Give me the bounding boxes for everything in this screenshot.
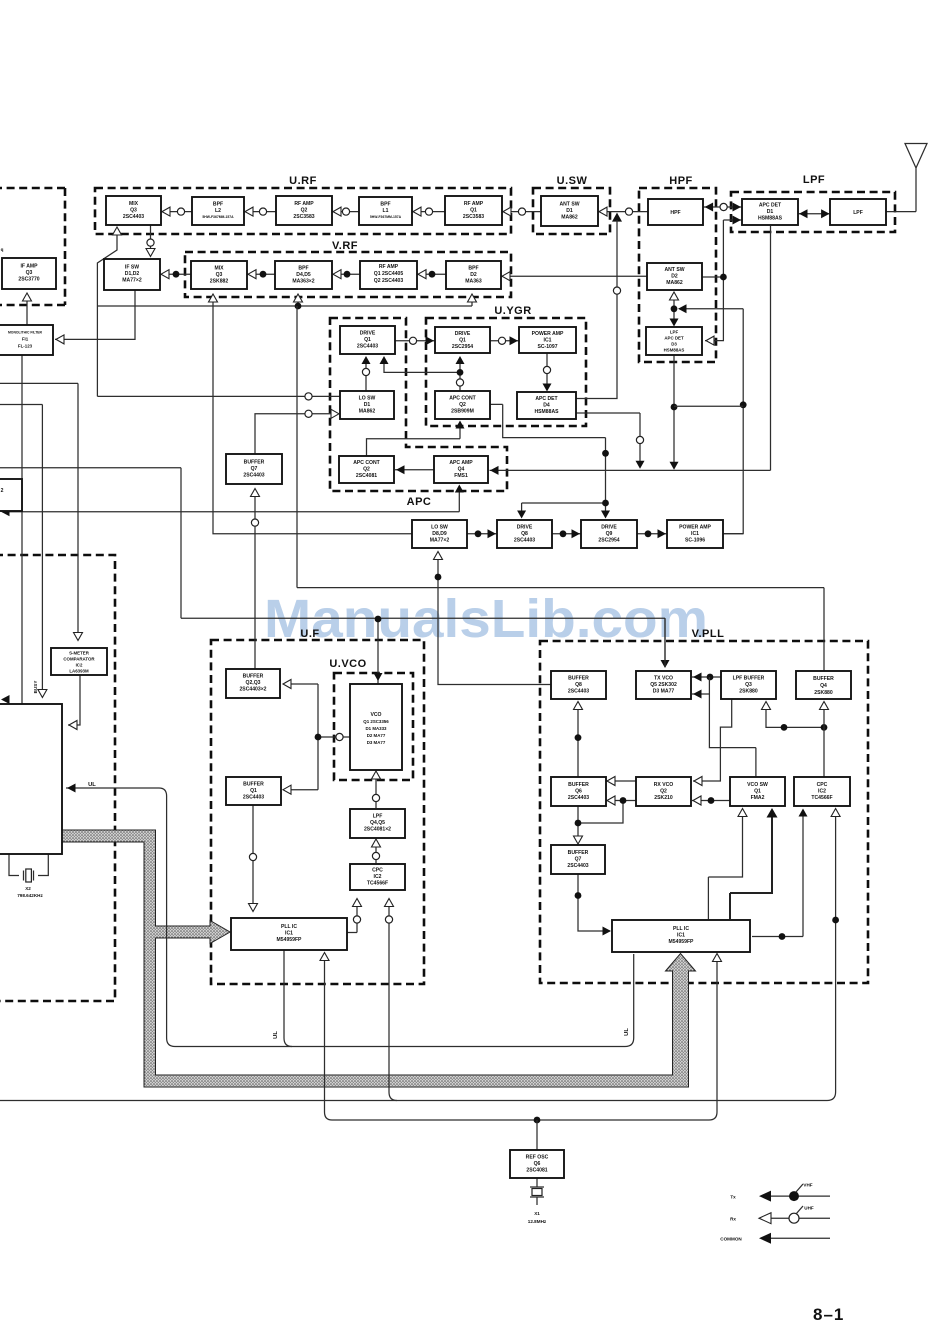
U.YGR section box — [426, 305, 586, 426]
svg-text:BPF: BPF — [213, 202, 223, 208]
svg-text:X2: X2 — [25, 886, 31, 891]
wire REF OSC rail to both PLL ICs — [320, 953, 722, 1124]
svg-text:2SC4403: 2SC4403 — [357, 344, 378, 350]
svg-text:D1 MA333: D1 MA333 — [366, 726, 388, 731]
hatched control bus from CPU box to both PLL ICs — [62, 830, 696, 1087]
wire APC AMP to APC CONT 2SC4081 — [395, 465, 434, 474]
wire LPF BUFFER Q3 bottom arrow rail — [762, 702, 828, 731]
svg-text:LPF: LPF — [853, 210, 863, 216]
svg-text:SC-1096: SC-1096 — [685, 538, 705, 544]
svg-text:Q1 2SC4405: Q1 2SC4405 — [374, 271, 404, 277]
svg-text:IC2: IC2 — [818, 789, 826, 795]
buffer BUFFER Q8 2SC4403 — [551, 671, 606, 699]
filter MONOLITHIC FILTER FI1 FL-123 — [0, 325, 53, 355]
converter CPC IC2 TC4566F V.PLL — [794, 777, 850, 806]
wire IF SW to MIX V.RF — [160, 270, 191, 279]
wire RX VCO to BUFFER Q6 lower — [606, 796, 636, 805]
mixer MIX Q3 2SC4403 — [106, 196, 161, 225]
wire ANT SW D2 right to APC DET D1 column — [702, 220, 727, 345]
svg-text:DRIVE: DRIVE — [601, 525, 617, 531]
switch LO SW D8,D9 MA77x2 — [412, 520, 467, 548]
svg-text:V.PLL: V.PLL — [692, 628, 725, 640]
wire MIX U.RF bottom jog down to line A — [97, 227, 121, 396]
svg-text:APC DET: APC DET — [535, 396, 558, 402]
wire trunk y512 to APC AMP — [1, 485, 464, 517]
filter BPF L2 — [192, 197, 244, 225]
filter BPF D4,D5 MA363x2 — [275, 261, 332, 289]
svg-text:HSM88AS: HSM88AS — [758, 216, 783, 222]
amplifier POWER AMP IC1 SC-1096 — [667, 520, 723, 548]
svg-text:2SK882: 2SK882 — [210, 279, 229, 285]
filter LPF Q4,Q5 2SC4081x2 — [350, 809, 405, 838]
svg-text:Q3: Q3 — [26, 270, 33, 276]
svg-text:D2: D2 — [470, 272, 477, 278]
wire TX VCO top feed — [664, 618, 666, 666]
wire trunk y587 to BUFFER Q4 — [297, 588, 824, 671]
wire MIX U.RF to IF SW — [146, 225, 155, 257]
U.VCO section box — [329, 658, 413, 780]
wire ANT SW D2 to LPF APC DET D3 with junction — [670, 292, 679, 327]
svg-text:BUSY: BUSY — [33, 681, 38, 694]
left lower section box — [0, 555, 115, 1001]
wire CPC U.F lines down to rail — [385, 899, 398, 1101]
svg-text:Q1: Q1 — [754, 789, 761, 795]
svg-text:TC4566F: TC4566F — [367, 881, 388, 887]
svg-text:MA363×2: MA363×2 — [292, 279, 314, 285]
svg-text:D8,D9: D8,D9 — [432, 531, 447, 537]
svg-text:Q6: Q6 — [575, 789, 582, 795]
wire U.RF MIX to BPF L2 — [161, 207, 192, 216]
wire U.F PLL IC to UL bus — [284, 950, 292, 1047]
wire APC CONT 2SB909M output to drivers — [490, 404, 610, 518]
svg-text:UL: UL — [624, 1028, 630, 1036]
svg-text:FMA2: FMA2 — [751, 795, 765, 801]
svg-text:PLL IC: PLL IC — [673, 926, 689, 932]
buffer BUFFER Q7 2SC4403 V.PLL — [551, 845, 605, 874]
wire V.RF bottoms rail — [97, 294, 476, 309]
svg-text:MA862: MA862 — [561, 215, 578, 221]
svg-text:Q8: Q8 — [575, 682, 582, 688]
svg-text:PLL IC: PLL IC — [281, 924, 297, 930]
wire DRIVE Q8 to DRIVE Q9 — [552, 529, 581, 538]
HPF section box — [639, 175, 716, 362]
svg-text:Q2: Q2 — [459, 402, 466, 408]
svg-text:DRIVE: DRIVE — [517, 525, 533, 531]
switch VCO SW Q1 FMA2 — [730, 777, 785, 806]
svg-text:Q9: Q9 — [606, 531, 613, 537]
wire IF AMP down to monolithic filter — [23, 293, 32, 325]
wire BPF L1 to RF AMP Q1 — [412, 207, 445, 216]
svg-text:Q4: Q4 — [820, 683, 827, 689]
svg-text:VHF: VHF — [803, 1183, 812, 1188]
svg-text:M54959FP: M54959FP — [669, 939, 695, 945]
label X1 crystal — [528, 1211, 547, 1224]
wire APC DET D1 to LPF — [798, 209, 830, 218]
oscillator VCO Q1 2SC3356 — [350, 684, 402, 770]
wire VCO SW to RX VCO — [692, 796, 730, 805]
svg-text:U.F: U.F — [300, 628, 319, 640]
amplifier POWER AMP IC1 SC-1097 — [519, 327, 576, 353]
svg-text:MA862: MA862 — [666, 280, 683, 286]
wire BPF D4,D5 column down to trunk — [296, 306, 298, 588]
svg-text:U.SW: U.SW — [557, 175, 588, 187]
svg-text:LPF: LPF — [670, 330, 679, 335]
wire IF SW down to monolithic filter — [55, 290, 135, 344]
svg-text:2SC4081: 2SC4081 — [356, 473, 377, 479]
svg-text:FMS1: FMS1 — [454, 473, 468, 479]
svg-text:2SC4403: 2SC4403 — [567, 863, 588, 869]
svg-text:BUFFER: BUFFER — [243, 674, 264, 680]
svg-text:Q3: Q3 — [216, 272, 223, 278]
svg-text:DRIVE: DRIVE — [455, 331, 471, 337]
wire BPF L2 to RF AMP Q2 — [244, 207, 276, 216]
svg-text:D3: D3 — [671, 342, 677, 347]
svg-text:MA363: MA363 — [465, 279, 482, 285]
svg-text:2SC2954: 2SC2954 — [452, 344, 473, 350]
svg-text:D3 MA77: D3 MA77 — [367, 740, 386, 745]
wire VCO SW control from PLL IC left — [708, 809, 747, 920]
svg-text:HSM88AS: HSM88AS — [534, 409, 559, 415]
svg-text:UHF: UHF — [804, 1206, 814, 1211]
svg-text:2SC3770: 2SC3770 — [18, 277, 39, 283]
svg-text:S-METER: S-METER — [69, 651, 90, 656]
switch ANT SW D2 MA862 — [647, 263, 702, 290]
svg-text:BUFFER: BUFFER — [568, 850, 589, 856]
svg-text:APC DET: APC DET — [759, 203, 782, 209]
wire LPF BUFFER Q3 to TX VCO — [692, 673, 721, 682]
wire VCO SW control bold from PLL IC — [730, 808, 778, 919]
svg-text:Q2: Q2 — [660, 789, 667, 795]
wire trunk to VCOs — [0, 468, 670, 684]
svg-text:D1: D1 — [566, 208, 573, 214]
svg-text:D2 MA77: D2 MA77 — [367, 733, 386, 738]
svg-text:LO SW: LO SW — [359, 396, 376, 402]
wire X1 crystal to REF OSC — [530, 1178, 544, 1205]
wire RX VCO to BUFFER Q6 upper — [606, 777, 636, 786]
svg-text:12.8MHz: 12.8MHz — [528, 1219, 547, 1224]
wire POWER AMP SC-1097 to APC DET D4 — [543, 353, 552, 392]
svg-text:5HW-F367MM-157A: 5HW-F367MM-157A — [202, 215, 234, 219]
svg-text:798.642KHz: 798.642KHz — [17, 893, 43, 898]
svg-text:IC1: IC1 — [677, 933, 685, 939]
svg-text:APC: APC — [407, 496, 432, 508]
svg-text:IF SW: IF SW — [125, 265, 139, 271]
filter LPF — [830, 199, 886, 225]
svg-text:2SC4403: 2SC4403 — [568, 795, 589, 801]
wire BUFFER Q7 upper feed — [251, 489, 260, 670]
svg-text:FL-123: FL-123 — [18, 344, 33, 349]
svg-text:IC1: IC1 — [691, 531, 699, 537]
wire APC CONT 2SC4081 top loop to 2SB909M — [367, 421, 465, 457]
svg-text:Q1: Q1 — [459, 338, 466, 344]
wire BPF D4,D5 to RF AMP — [332, 270, 360, 279]
svg-text:Q1: Q1 — [364, 337, 371, 343]
partial box at left edge — [0, 479, 22, 511]
svg-text:L1: L1 — [383, 208, 389, 214]
amplifier RF AMP Q1 2SC3583 — [445, 196, 502, 225]
oscillator REF OSC Q6 2SC4081 — [510, 1150, 564, 1178]
pll PLL IC IC1 M54959FP — [231, 918, 347, 950]
svg-text:2SC4403: 2SC4403 — [243, 795, 264, 801]
wire U.F PLL IC output to CPC IC2 — [347, 899, 362, 933]
wire LO SW D8,D9 to DRIVE Q8 — [467, 529, 497, 538]
svg-text:TC4566F: TC4566F — [811, 795, 832, 801]
svg-text:D4,D5: D4,D5 — [296, 272, 311, 278]
svg-text:D1,D2: D1,D2 — [125, 271, 140, 277]
wire S-METER to CPU box — [68, 675, 80, 729]
svg-text:MIX: MIX — [214, 266, 224, 272]
comparator S-METER COMPARATOR IC2 LA6393M — [51, 648, 107, 675]
wire BUFFER Q4 to CPC IC2 V.PLL — [820, 702, 829, 778]
U.F section box — [211, 628, 424, 984]
svg-text:HSM88AS: HSM88AS — [664, 348, 685, 353]
wire ANT SW D1 to HPF with Tx riser junction — [598, 207, 648, 222]
wire Tx riser from APC DET D4 up to antenna switch — [576, 220, 621, 399]
driver DRIVE Q1 2SC4403 — [340, 326, 395, 354]
svg-text:Tx: Tx — [730, 1195, 736, 1200]
amplifier APC AMP Q4 FMS1 — [434, 456, 488, 483]
amplifier RF AMP Q2 2SC3583 — [276, 196, 332, 225]
wire BUFFER Q8 to BUFFER Q6 — [574, 702, 583, 778]
wire PA output return to antenna switch — [678, 304, 747, 533]
svg-text:RF AMP: RF AMP — [379, 264, 399, 270]
wire RF AMP Q1 to ANT SW D1 — [502, 207, 541, 216]
svg-text:2SC4403×2: 2SC4403×2 — [239, 687, 266, 693]
legend Rx line — [730, 1206, 830, 1224]
wire REF OSC stem — [536, 1120, 538, 1150]
wire UL into CPU box — [66, 784, 634, 1047]
wire BUFFER Q6 to BUFFER Q7 — [574, 806, 583, 844]
wire cross link D3 line to PA line — [674, 405, 743, 407]
svg-text:IC1: IC1 — [285, 931, 293, 937]
svg-text:LA6393M: LA6393M — [69, 669, 89, 674]
svg-text:BPF: BPF — [468, 266, 478, 272]
svg-text:POWER AMP: POWER AMP — [679, 525, 711, 531]
filter BPF D2 MA363 — [446, 261, 501, 289]
svg-text:POWER AMP: POWER AMP — [532, 331, 564, 337]
svg-text:Q3: Q3 — [130, 208, 137, 214]
svg-text:Rx: Rx — [730, 1217, 736, 1222]
svg-text:2SC3583: 2SC3583 — [463, 214, 484, 220]
wire MIX V.RF to BPF D4,D5 — [247, 270, 275, 279]
detector LPF APC DET D3 HSM88AS — [646, 327, 702, 355]
svg-text:Q8: Q8 — [521, 531, 528, 537]
arrow into CPC IC2 V.PLL right pin — [831, 809, 840, 924]
mixer MIX Q3 2SKB82 — [191, 261, 247, 289]
svg-text:BPF: BPF — [298, 266, 308, 272]
legend Tx line — [730, 1183, 830, 1202]
wire LPF BUFFER Q3 to RX VCO zigzag — [693, 699, 732, 786]
svg-text:VCO SW: VCO SW — [747, 782, 768, 788]
svg-text:X1: X1 — [534, 1211, 540, 1216]
svg-text:RF AMP: RF AMP — [464, 201, 484, 207]
svg-text:Q7: Q7 — [251, 466, 258, 472]
wire LPF Q4,Q5 to CPC — [372, 839, 381, 863]
svg-text:BUFFER: BUFFER — [243, 782, 264, 788]
svg-text:2SC4403: 2SC4403 — [568, 689, 589, 695]
svg-text:RF AMP: RF AMP — [294, 201, 314, 207]
V.PLL section box — [540, 628, 868, 983]
wire left stub y383 — [0, 383, 78, 639]
svg-text:2SC4403: 2SC4403 — [123, 214, 144, 220]
svg-text:V.RF: V.RF — [332, 240, 358, 252]
svg-text:IF AMP: IF AMP — [20, 264, 38, 270]
svg-text:Q6: Q6 — [534, 1161, 541, 1167]
wire LO SW D1 inputs line A — [97, 393, 340, 400]
buffer BUFFER Q1 2SC4403 — [226, 777, 281, 805]
svg-text:VCO: VCO — [370, 712, 381, 718]
svg-text:2SC3583: 2SC3583 — [293, 214, 314, 220]
wire VCO output node — [283, 680, 350, 795]
wire LPF to antenna — [886, 211, 916, 213]
svg-text:Q4,Q5: Q4,Q5 — [370, 820, 385, 826]
amplifier RF AMP Q1 Q2 — [360, 261, 417, 289]
antenna — [905, 144, 927, 212]
svg-text:D1: D1 — [767, 209, 774, 215]
wire DRIVE 2SC2954 to POWER AMP SC-1097 — [490, 336, 519, 345]
svg-text:BUFFER: BUFFER — [244, 460, 265, 466]
svg-text:MIX: MIX — [129, 201, 139, 207]
svg-text:DRIVE: DRIVE — [360, 331, 376, 337]
svg-text:FI1: FI1 — [22, 337, 29, 342]
switch ANT SW D1 MA862 — [541, 196, 598, 226]
svg-text:UL: UL — [88, 782, 96, 788]
filter HPF — [648, 199, 703, 225]
svg-text:Q1 2SC3356: Q1 2SC3356 — [363, 719, 389, 724]
wire LO SW D8,D9 bottom feed to BUFFER Q8 — [434, 552, 552, 685]
wire TX VCO second input and VCO SW feed — [692, 677, 756, 777]
controller APC CONT Q2 2SB909M — [435, 391, 490, 419]
oscillator TX VCO Q5 2SK302 D3 MA77 — [636, 671, 691, 699]
wire LPF APC DET D3 down to APC bus — [670, 355, 679, 470]
wire long bottom rail to V.PLL CPC — [0, 810, 836, 1101]
svg-text:MA77×2: MA77×2 — [122, 278, 142, 284]
svg-text:APC AMP: APC AMP — [449, 460, 473, 466]
svg-text:APC CONT: APC CONT — [353, 460, 380, 466]
svg-text:D2: D2 — [671, 274, 678, 280]
driver DRIVE Q1 2SC2954 — [435, 327, 490, 353]
wire DRIVE Q9 to POWER AMP SC-1096 — [637, 529, 667, 538]
wire APC feedback into APC DET D1 pin 2 — [723, 216, 742, 225]
svg-text:D3 MA77: D3 MA77 — [653, 689, 675, 695]
svg-text:D1: D1 — [364, 402, 371, 408]
svg-text:REF OSC: REF OSC — [526, 1155, 549, 1161]
wire RX VCO branch down to BUFFER Q7 line — [578, 797, 626, 823]
svg-text:2SB909M: 2SB909M — [451, 409, 474, 415]
svg-text:HPF: HPF — [669, 175, 693, 187]
switch LO SW D1 MA862 — [340, 391, 394, 419]
buffer BUFFER Q4 2SK880 — [796, 671, 851, 699]
svg-text:2SC4403: 2SC4403 — [243, 473, 264, 479]
svg-text:LPF: LPF — [373, 814, 383, 820]
svg-text:CPC: CPC — [817, 782, 828, 788]
IF section box top-left — [0, 188, 65, 305]
buffer BUFFER Q6 2SC4403 — [551, 777, 606, 806]
pll PLL IC IC1 M54959FP V.PLL — [612, 920, 750, 952]
buffer BUFFER Q2,Q3 2SC4403x2 — [226, 669, 280, 698]
svg-text:U.RF: U.RF — [289, 175, 317, 187]
driver DRIVE Q8 2SC4403 — [497, 520, 552, 548]
wire APC bus horizontal — [490, 226, 771, 475]
arrow left edge CPU — [1, 695, 14, 704]
svg-text:TX VCO: TX VCO — [654, 676, 673, 682]
wire RF AMP Q2 to BPF L1 — [332, 207, 359, 216]
buffer LPF BUFFER Q3 2SK880 — [721, 671, 776, 699]
svg-text:SC-1097: SC-1097 — [537, 344, 557, 350]
converter CPC IC2 TC4566F — [350, 864, 405, 890]
svg-text:Q7: Q7 — [575, 857, 582, 863]
svg-text:BPF: BPF — [380, 202, 390, 208]
filter BPF L1 — [359, 197, 412, 225]
legend COMMON line — [720, 1233, 830, 1244]
svg-text:5HW-F367MM-157A: 5HW-F367MM-157A — [370, 215, 402, 219]
wire left stub y404 BUSY — [0, 405, 42, 697]
svg-text:8–1: 8–1 — [813, 1305, 844, 1324]
wire BUFFER Q7 to PLL IC V.PLL — [575, 874, 611, 936]
svg-text:q: q — [1, 247, 4, 252]
svg-text:COMMON: COMMON — [720, 1237, 742, 1242]
svg-text:MONOLITHIC FILTER: MONOLITHIC FILTER — [8, 331, 43, 335]
CPU box — [0, 704, 62, 854]
controller APC CONT Q2 2SC4081 — [339, 456, 394, 483]
svg-text:IC2: IC2 — [374, 874, 382, 880]
svg-text:2SC4403: 2SC4403 — [514, 538, 535, 544]
wire RF AMP to BPF D2 — [417, 270, 446, 279]
svg-text:Q1: Q1 — [250, 788, 257, 794]
wire APC DET D4 output down to APC bus — [576, 413, 645, 469]
svg-text:BUFFER: BUFFER — [813, 676, 834, 682]
svg-text:2: 2 — [1, 488, 4, 494]
svg-text:IC2: IC2 — [76, 663, 83, 668]
wire POWER AMP SC-1096 output — [723, 533, 743, 535]
detector APC DET D4 HSM88AS — [517, 392, 576, 419]
svg-text:LO SW: LO SW — [431, 525, 448, 531]
svg-text:Q3: Q3 — [745, 682, 752, 688]
svg-text:D4: D4 — [543, 403, 550, 409]
wire APC CONT 2SB909M to DRIVE Q1 branch — [380, 356, 465, 391]
svg-text:2SK880: 2SK880 — [739, 689, 758, 695]
wire filter column x22 — [21, 355, 23, 704]
svg-text:Q2: Q2 — [363, 467, 370, 473]
APC section box — [330, 318, 507, 508]
svg-text:APC CONT: APC CONT — [449, 396, 476, 402]
svg-text:UL: UL — [273, 1031, 279, 1039]
svg-text:MA862: MA862 — [359, 409, 376, 415]
U.RF section box — [95, 175, 511, 234]
svg-text:2SC2954: 2SC2954 — [598, 538, 619, 544]
V.RF section box — [185, 240, 511, 297]
U.SW section box — [533, 175, 610, 234]
wire DRIVE Q1 to DRIVE Q1 2SC2954 — [395, 336, 435, 345]
svg-text:CPC: CPC — [372, 868, 383, 874]
svg-text:BUFFER: BUFFER — [568, 676, 589, 682]
svg-text:LPF BUFFER: LPF BUFFER — [733, 676, 765, 682]
svg-text:L2: L2 — [215, 208, 221, 214]
svg-text:HPF: HPF — [670, 210, 680, 216]
wire LO SW D1 inputs line B from BUFFER Q7 — [255, 409, 339, 454]
label X2 crystal — [17, 886, 43, 898]
svg-text:M54959FP: M54959FP — [277, 937, 303, 943]
svg-text:Q2: Q2 — [301, 208, 308, 214]
svg-text:RX VCO: RX VCO — [654, 782, 674, 788]
svg-text:Q2 2SC4403: Q2 2SC4403 — [374, 278, 404, 284]
svg-text:2SK210: 2SK210 — [654, 795, 673, 801]
svg-text:COMPARATOR: COMPARATOR — [63, 657, 95, 662]
svg-text:ANT SW: ANT SW — [664, 267, 684, 273]
wire X2 crystal to CPU box — [9, 854, 48, 882]
LPF section box — [731, 174, 895, 232]
svg-text:U.VCO: U.VCO — [329, 658, 366, 670]
